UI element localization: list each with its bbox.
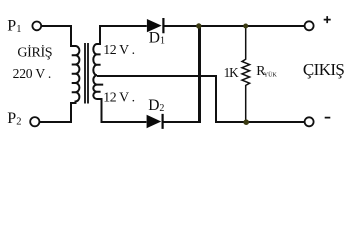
svg-text:12 V .: 12 V .: [103, 90, 135, 105]
svg-text:P2: P2: [7, 110, 21, 127]
svg-text:GİRİŞ: GİRİŞ: [17, 44, 52, 60]
svg-text:1K: 1K: [224, 65, 239, 80]
svg-text:D2: D2: [148, 97, 164, 114]
svg-text:220 V .: 220 V .: [13, 66, 52, 81]
svg-text:P1: P1: [7, 18, 21, 35]
svg-text:12 V .: 12 V .: [103, 42, 135, 57]
svg-text:RYÜK: RYÜK: [256, 63, 277, 79]
svg-text:ÇIKIŞ: ÇIKIŞ: [303, 60, 345, 79]
